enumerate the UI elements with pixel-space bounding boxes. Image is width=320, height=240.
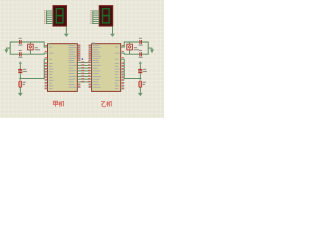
pin names U2 right column	[115, 47, 120, 89]
pin names U1 left column	[49, 47, 54, 89]
wire XTAL1 U1 top	[10, 42, 47, 47]
net label 甲机 (Machine A)	[53, 101, 64, 106]
capacitor C2 30pF	[18, 50, 22, 58]
microcontroller U1 AT89C51 body	[48, 44, 78, 92]
power +5V (right reset)	[139, 61, 142, 69]
wire to ground right	[148, 48, 152, 50]
label U1	[47, 43, 50, 44]
wire XTAL2 U1 bottom	[10, 53, 47, 54]
wire DS2 common to ground	[112, 26, 114, 34]
capacitor C4 30pF	[139, 38, 143, 46]
crystal X1 12MHz	[28, 42, 40, 54]
junction node (right RST)	[139, 78, 141, 80]
wire segment-bus to DS2	[92, 11, 99, 24]
pin numbers on interconnect wires	[81, 62, 90, 82]
wire R2 to ground	[139, 87, 141, 93]
capacitor C3 22uF	[18, 69, 27, 73]
pin numbers U1 XTAL1 XTAL2 RST	[45, 45, 47, 58]
wire RST net U1	[20, 59, 47, 78]
7-segment display DS1	[53, 6, 67, 27]
7-segment display DS2	[99, 6, 113, 27]
wire to ground left	[6, 48, 10, 50]
crystal X2 12MHz	[127, 42, 139, 54]
label U2	[92, 43, 95, 45]
capacitor C1 30pF	[18, 38, 22, 46]
wire XTAL1 U2 top	[121, 42, 149, 47]
pin numbers U2 left lower	[88, 84, 91, 88]
ground (below DS1)	[64, 34, 69, 37]
wire XTAL2 U2 bottom	[121, 53, 149, 54]
wire segment-bus to DS1	[46, 11, 53, 24]
microcontroller U2 AT89C51 body	[92, 44, 121, 92]
wires U1-U2 port interconnect	[77, 63, 91, 82]
pin names U1 right column	[69, 45, 77, 87]
pin numbers U1 right lower	[78, 84, 81, 88]
wire R1 to ground	[19, 87, 21, 93]
ground (left crystal)	[4, 49, 8, 53]
capacitor C5 30pF	[139, 50, 143, 58]
wire left join	[9, 42, 11, 55]
wire right join	[147, 42, 149, 55]
ground (below DS2)	[110, 34, 115, 37]
pin numbers and stubs U2 left upper	[88, 45, 91, 62]
junction node (left RST)	[19, 78, 21, 80]
net label 乙机 (Machine B)	[101, 101, 112, 106]
net label (blue) above interconnect	[82, 58, 84, 60]
ground (right crystal)	[150, 49, 154, 53]
wire RST net U2	[121, 59, 141, 78]
pin numbers DS2	[90, 10, 92, 23]
ground (left reset)	[18, 93, 23, 96]
capacitor C6 22uF	[138, 69, 147, 73]
pin names U2 left column	[93, 45, 101, 87]
wire C3 to node	[19, 73, 21, 79]
pin numbers and stubs U2 right lower	[121, 62, 124, 89]
wire DS1 common to ground	[65, 26, 67, 34]
pin numbers and stubs U1 right P0	[78, 45, 81, 62]
pin numbers DS1	[44, 10, 46, 23]
wire C6 to node	[139, 73, 141, 79]
resistor R1 1k	[19, 81, 26, 87]
ground (right reset)	[138, 93, 143, 96]
power +5V (left reset)	[19, 61, 22, 69]
resistor R2 1k	[139, 81, 146, 87]
pin numbers U2 XTAL1 XTAL2 RST	[122, 45, 124, 58]
pin numbers and stubs U1 left (P1/PSEN/ALE/EA)	[45, 62, 48, 89]
